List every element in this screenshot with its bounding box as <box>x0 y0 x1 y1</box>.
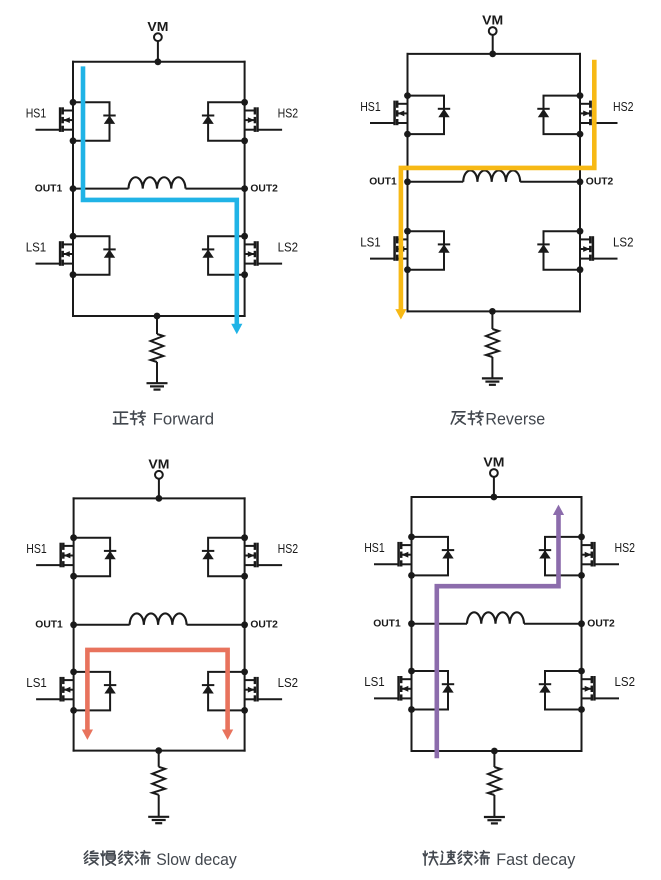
current path forward (blue) <box>83 66 237 324</box>
wire body-diode loop of HS1 <box>412 537 449 576</box>
svg-text:OUT1: OUT1 <box>373 618 401 630</box>
svg-text:VM: VM <box>482 13 503 28</box>
junction HS2 source <box>578 572 585 579</box>
wire OUT2 segment <box>187 624 245 626</box>
junction LS1 drain <box>70 669 77 676</box>
wire body-diode loop of HS2 <box>544 96 581 135</box>
svg-text:HS2: HS2 <box>615 540 636 555</box>
svg-text:OUT2: OUT2 <box>250 619 278 631</box>
wire bottom rail <box>72 315 246 317</box>
junction node OUT1 <box>404 178 411 185</box>
junction HS1 drain <box>70 534 77 541</box>
junction LS1 drain <box>70 233 77 240</box>
wire VM stem <box>493 477 495 497</box>
svg-text:HS2: HS2 <box>613 99 634 114</box>
junction VM / top rail <box>155 58 162 65</box>
caption 缓慢续流 Slow decay <box>84 850 237 869</box>
svg-text:HS1: HS1 <box>364 540 385 555</box>
transistor HS2 <box>580 101 618 126</box>
svg-text:OUT1: OUT1 <box>369 176 397 188</box>
svg-text:Slow decay: Slow decay <box>156 850 237 869</box>
transistor LS2 <box>245 677 283 702</box>
wire top rail <box>411 496 583 498</box>
arrowhead fast decay (purple) <box>553 505 564 515</box>
wire left rail <box>411 496 413 752</box>
junction HS1 drain <box>404 92 411 99</box>
junction LS1 drain <box>404 228 411 235</box>
wire OUT2 segment <box>520 181 580 183</box>
ground <box>147 383 168 389</box>
transistor HS1 <box>374 542 412 567</box>
wire top rail <box>407 53 582 55</box>
current path slow decay (red) <box>87 650 227 730</box>
svg-text:HS1: HS1 <box>26 541 47 556</box>
svg-text:OUT2: OUT2 <box>250 183 278 195</box>
diode D-LS1 <box>442 684 454 692</box>
svg-text:LS1: LS1 <box>26 675 47 690</box>
junction LS2 drain <box>241 233 248 240</box>
transistor LS1 <box>36 677 74 702</box>
wire resistor bottom lead <box>491 357 493 378</box>
junction VM / top rail <box>491 494 498 501</box>
transistor LS1 <box>374 676 412 701</box>
transistor HS1 <box>370 101 408 126</box>
svg-text:LS2: LS2 <box>278 239 299 254</box>
caption 快速续流 Fast decay <box>423 850 576 869</box>
junction VM / top rail <box>156 495 163 502</box>
wire right rail <box>244 61 246 317</box>
inductor motor winding L1 <box>130 613 187 624</box>
transistor LS1 <box>36 241 74 266</box>
junction node OUT2 <box>241 621 248 628</box>
diode D-LS2 <box>202 685 214 693</box>
transistor HS2 <box>245 543 283 568</box>
diode D-HS2 <box>539 550 551 558</box>
svg-text:OUT1: OUT1 <box>35 619 63 631</box>
junction LS2 drain <box>578 668 585 675</box>
junction HS2 source <box>577 131 584 138</box>
wire VM stem <box>157 41 159 62</box>
diode D-HS1 <box>104 551 116 559</box>
diode D-HS1 <box>103 116 115 124</box>
junction HS2 source <box>241 137 248 144</box>
wire OUT2 segment <box>524 623 582 625</box>
arrowhead reverse (yellow) <box>395 309 406 319</box>
wire OUT1 segment <box>412 623 468 625</box>
junction LS2 source <box>241 271 248 278</box>
transistor LS2 <box>580 236 618 261</box>
junction LS1 source <box>404 266 411 273</box>
wire resistor top lead <box>156 316 158 334</box>
svg-text:VM: VM <box>148 457 169 472</box>
wire left rail <box>72 61 74 317</box>
junction HS1 drain <box>408 534 415 541</box>
junction bottom rail / sense resistor <box>155 747 162 754</box>
ground <box>482 378 503 384</box>
junction LS2 source <box>241 707 248 714</box>
wire body-diode loop of HS1 <box>73 102 110 141</box>
junction HS2 source <box>241 573 248 580</box>
wire body-diode loop of HS1 <box>408 96 445 135</box>
arrowhead forward (blue) <box>231 324 242 334</box>
diode D-HS2 <box>537 109 549 117</box>
wire body-diode loop of LS1 <box>408 231 445 270</box>
wire bottom rail <box>411 750 583 752</box>
svg-text:LS1: LS1 <box>360 234 381 249</box>
svg-text:LS2: LS2 <box>613 234 634 249</box>
svg-text:OUT1: OUT1 <box>35 183 63 195</box>
inductor motor winding L1 <box>467 612 524 623</box>
wire top rail <box>73 497 246 499</box>
caption 正转 Forward <box>113 410 214 429</box>
svg-text:HS2: HS2 <box>278 541 299 556</box>
wire resistor bottom lead <box>493 795 495 817</box>
svg-text:LS1: LS1 <box>26 239 47 254</box>
junction HS1 source <box>408 572 415 579</box>
wire body-diode loop of LS1 <box>73 236 110 275</box>
wire VM stem <box>158 479 160 499</box>
svg-text:HS2: HS2 <box>278 106 299 121</box>
wire resistor top lead <box>491 311 493 329</box>
transistor LS2 <box>582 676 620 701</box>
junction LS2 source <box>577 266 584 273</box>
resistor Rsense <box>488 767 501 795</box>
arrowhead slow decay right <box>222 730 233 740</box>
diode D-LS1 <box>438 244 450 252</box>
junction LS1 source <box>70 271 77 278</box>
inductor motor winding L1 <box>129 177 186 188</box>
transistor LS1 <box>370 236 408 261</box>
junction HS2 drain <box>578 534 585 541</box>
ground <box>484 817 505 823</box>
diode D-HS1 <box>438 109 450 117</box>
junction HS2 drain <box>241 534 248 541</box>
arrowhead slow decay (red) <box>82 730 93 740</box>
wire left rail <box>73 497 75 751</box>
inductor motor winding L1 <box>463 170 520 181</box>
transistor LS2 <box>245 241 283 266</box>
wire OUT2 segment <box>186 188 245 190</box>
wire body-diode loop of LS2 <box>208 236 245 275</box>
current path reverse (yellow) <box>401 60 594 310</box>
wire right rail <box>581 496 583 752</box>
wire resistor bottom lead <box>156 362 158 383</box>
transistor HS1 <box>36 107 74 132</box>
wire top rail <box>72 61 246 63</box>
wire body-diode loop of LS2 <box>545 671 582 710</box>
svg-text:LS2: LS2 <box>615 674 636 689</box>
svg-text:LS2: LS2 <box>278 675 299 690</box>
junction node OUT1 <box>408 620 415 627</box>
resistor Rsense <box>152 767 165 795</box>
junction bottom rail / sense resistor <box>491 748 498 755</box>
junction node OUT2 <box>241 185 248 192</box>
wire body-diode loop of HS1 <box>74 538 111 577</box>
resistor Rsense <box>151 334 164 362</box>
svg-text:HS1: HS1 <box>360 99 381 114</box>
terminal VM <box>155 471 163 479</box>
svg-text:OUT2: OUT2 <box>587 618 615 630</box>
junction LS1 source <box>408 706 415 713</box>
transistor HS1 <box>36 543 74 568</box>
terminal VM <box>490 469 498 477</box>
wire OUT1 segment <box>408 181 464 183</box>
svg-text:Fast decay: Fast decay <box>496 850 575 869</box>
wire body-diode loop of LS2 <box>544 231 581 270</box>
transistor HS2 <box>245 107 283 132</box>
wire body-diode loop of LS1 <box>74 672 111 711</box>
junction HS2 drain <box>577 92 584 99</box>
svg-text:LS1: LS1 <box>364 674 385 689</box>
junction HS1 source <box>70 573 77 580</box>
diode D-HS2 <box>202 116 214 124</box>
wire body-diode loop of LS1 <box>412 671 449 710</box>
junction LS2 drain <box>241 669 248 676</box>
ground <box>148 817 169 823</box>
junction HS1 drain <box>70 99 77 106</box>
junction bottom rail / sense resistor <box>154 313 161 320</box>
diode D-HS1 <box>442 550 454 558</box>
svg-text:VM: VM <box>483 455 504 470</box>
wire right rail <box>579 53 581 313</box>
junction HS1 source <box>70 137 77 144</box>
caption 反转Reverse <box>451 410 545 429</box>
wire bottom rail <box>407 310 582 312</box>
svg-text:HS1: HS1 <box>26 106 47 121</box>
junction node OUT2 <box>577 178 584 185</box>
wire left rail <box>407 53 409 313</box>
wire OUT1 segment <box>73 188 129 190</box>
wire body-diode loop of HS2 <box>545 537 582 576</box>
junction HS2 drain <box>241 99 248 106</box>
wire OUT1 segment <box>74 624 130 626</box>
wire body-diode loop of LS2 <box>208 672 245 711</box>
svg-text:Forward: Forward <box>153 410 215 429</box>
junction node OUT2 <box>578 620 585 627</box>
diode D-HS2 <box>202 551 214 559</box>
diode D-LS2 <box>202 249 214 257</box>
svg-text:OUT2: OUT2 <box>586 176 614 188</box>
junction VM / top rail <box>489 51 496 58</box>
junction node OUT1 <box>70 185 77 192</box>
diode D-LS2 <box>539 684 551 692</box>
svg-text:VM: VM <box>147 19 168 34</box>
junction LS1 source <box>70 707 77 714</box>
wire VM stem <box>492 35 494 54</box>
junction bottom rail / sense resistor <box>489 308 496 315</box>
transistor HS2 <box>582 542 620 567</box>
terminal VM <box>154 33 162 41</box>
current path fast decay (purple) <box>437 515 559 758</box>
junction node OUT1 <box>70 621 77 628</box>
junction HS1 source <box>404 131 411 138</box>
terminal VM <box>489 27 497 35</box>
wire bottom rail <box>73 750 246 752</box>
resistor Rsense <box>486 329 499 357</box>
junction LS2 drain <box>577 228 584 235</box>
wire body-diode loop of HS2 <box>208 538 245 577</box>
junction LS2 source <box>578 706 585 713</box>
wire resistor bottom lead <box>158 795 160 817</box>
diode D-LS1 <box>103 249 115 257</box>
diode D-LS1 <box>104 685 116 693</box>
wire resistor top lead <box>493 751 495 767</box>
wire resistor top lead <box>158 751 160 767</box>
diode D-LS2 <box>537 244 549 252</box>
junction LS1 drain <box>408 668 415 675</box>
wire body-diode loop of HS2 <box>208 102 245 141</box>
wire right rail <box>244 497 246 751</box>
svg-text:Reverse: Reverse <box>485 410 545 429</box>
